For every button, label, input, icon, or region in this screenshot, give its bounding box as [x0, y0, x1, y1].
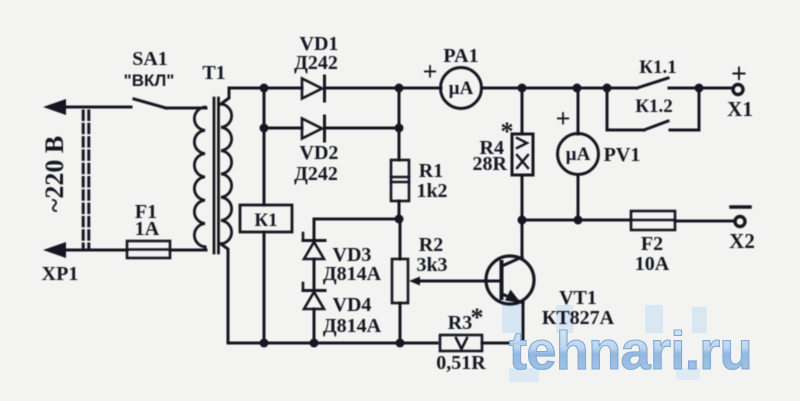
transformer T1 primary winding	[194, 107, 205, 247]
svg-text:1k2: 1k2	[416, 180, 447, 202]
node junction at 399,219	[395, 215, 404, 224]
wire VD2 row	[264, 127, 302, 130]
wire bottom rail right	[482, 342, 523, 345]
svg-text:К1.1: К1.1	[639, 57, 677, 78]
diode VD1	[302, 76, 325, 101]
relay coil K1 box	[240, 205, 292, 232]
wire	[325, 127, 399, 130]
svg-text:XP1: XP1	[42, 263, 79, 285]
svg-text:SA1: SA1	[132, 48, 168, 70]
wire secondary top lead	[221, 88, 229, 104]
transformer T1 secondary winding	[221, 104, 232, 244]
label minus of X2	[731, 205, 750, 209]
resistor R4	[512, 88, 533, 220]
terminal X2	[735, 217, 745, 227]
node junction at 314,343	[310, 339, 319, 348]
relay contact K1.2 blade	[644, 121, 668, 130]
node junction at 264,128	[260, 124, 269, 133]
meter PA1	[441, 68, 482, 109]
wire	[670, 129, 699, 132]
svg-text:10А: 10А	[635, 253, 670, 275]
svg-text:Х2: Х2	[729, 229, 755, 253]
terminal X1	[733, 85, 743, 95]
wire zener top rail	[314, 218, 399, 221]
node junction at 578,220	[574, 216, 583, 225]
wire top rail left	[229, 87, 302, 90]
svg-text:VD2: VD2	[300, 142, 339, 164]
connector XP1 arrow upper	[43, 99, 131, 115]
wire base	[419, 280, 501, 283]
wire vertical to K1	[263, 88, 266, 205]
wire K1.2 branch left vertical	[606, 88, 609, 130]
svg-text:F2: F2	[641, 233, 663, 255]
svg-text:PA1: PA1	[443, 45, 478, 67]
node junction at 400,343	[396, 339, 405, 348]
node junction at 577,88	[573, 84, 582, 93]
node junction at 699,88	[695, 84, 704, 93]
connector XP1 arrow lower	[43, 242, 127, 258]
diode VD2	[302, 116, 325, 141]
svg-text:R1: R1	[419, 160, 443, 182]
fuse F1	[127, 241, 170, 258]
wire F2 to X2	[675, 220, 734, 223]
wire R2 top	[399, 219, 402, 259]
wire	[62, 106, 131, 109]
zener diode VD4	[303, 283, 325, 309]
watermark tehnari.ru	[509, 321, 752, 382]
wire collector up	[521, 220, 524, 257]
wire R1 bottom to node	[398, 201, 401, 219]
wire top rail to PA1	[399, 87, 441, 90]
svg-text:tehnari.ru: tehnari.ru	[509, 321, 752, 381]
svg-text:3k3: 3k3	[416, 254, 447, 276]
wire K1 to bottom rail	[263, 232, 266, 343]
resistor R3	[440, 335, 482, 351]
potentiometer R2	[392, 259, 408, 303]
wire secondary bottom lead	[221, 244, 228, 343]
wire zener to bottom rail	[313, 309, 316, 343]
switch SA1 blade	[134, 99, 166, 108]
wire bottom rail	[228, 342, 437, 345]
svg-text:+: +	[423, 57, 438, 86]
svg-text:Т1: Т1	[202, 62, 225, 84]
resistor R1	[391, 160, 409, 201]
wire	[313, 259, 316, 290]
svg-text:*: *	[471, 303, 484, 332]
svg-text:Х1: Х1	[727, 97, 753, 121]
wire	[170, 249, 206, 252]
wire	[62, 249, 127, 252]
node junction at 607,88	[603, 84, 612, 93]
svg-text:К1: К1	[254, 210, 277, 231]
fuse F2	[631, 211, 675, 230]
wire	[607, 129, 644, 132]
wire	[166, 107, 206, 110]
svg-text:~220 В: ~220 В	[40, 136, 69, 212]
wire vertical to R1	[398, 88, 401, 160]
svg-text:VT1: VT1	[559, 287, 597, 309]
node junction at 522,220	[518, 216, 527, 225]
svg-text:R2: R2	[419, 234, 443, 256]
svg-text:Д814А: Д814А	[323, 315, 382, 337]
transistor VT1	[486, 256, 534, 304]
svg-text:Д242: Д242	[294, 163, 338, 185]
potentiometer R2 wiper arrow	[409, 277, 420, 286]
node junction at 399,88	[395, 84, 404, 93]
svg-text:К1.2: К1.2	[635, 96, 673, 117]
meter PV1	[558, 88, 599, 220]
node junction at 399,128	[395, 124, 404, 133]
wire K1.2 branch right vertical	[698, 88, 701, 130]
svg-text:µА: µА	[566, 144, 591, 165]
wire R2 bottom	[399, 303, 402, 343]
svg-text:Д242: Д242	[294, 52, 338, 74]
zener diode VD3	[303, 233, 325, 259]
plug XP1 dashed lines	[83, 111, 89, 247]
wire top rail right	[669, 87, 732, 90]
svg-text:28R: 28R	[473, 153, 508, 175]
svg-text:µА: µА	[449, 78, 474, 99]
node junction at 264,88	[260, 84, 269, 93]
svg-text:+: +	[556, 104, 571, 133]
wire collector rail	[522, 219, 631, 222]
wire	[313, 219, 316, 241]
svg-text:+: +	[731, 59, 747, 90]
node junction at 264,343	[260, 339, 269, 348]
svg-text:R3: R3	[448, 312, 472, 334]
wire top rail PA1 to K1.1	[482, 87, 638, 90]
transformer T1 core	[214, 98, 219, 253]
svg-text:PV1: PV1	[604, 144, 641, 166]
relay contact K1.1 blade	[637, 78, 668, 88]
svg-text:Д814А: Д814А	[323, 263, 382, 285]
wire	[204, 247, 207, 250]
wire VD1 cathode to node	[325, 87, 399, 90]
watermark artifact blocks	[502, 303, 707, 333]
svg-text:1А: 1А	[135, 218, 160, 240]
svg-text:"ВКЛ": "ВКЛ"	[124, 71, 175, 90]
wire emitter down	[522, 303, 525, 343]
node junction at 522,88	[518, 84, 527, 93]
svg-text:0,51R: 0,51R	[436, 352, 486, 374]
svg-text:VD4: VD4	[333, 294, 372, 316]
